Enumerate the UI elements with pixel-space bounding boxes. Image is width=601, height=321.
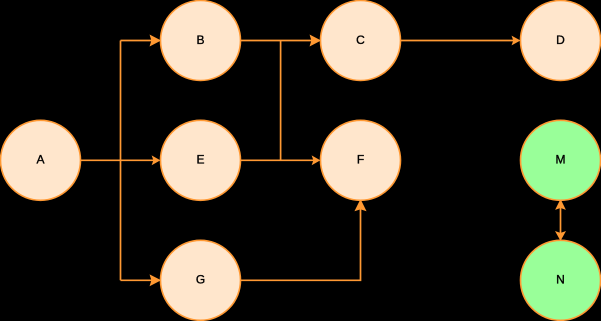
svg-text:G: G bbox=[196, 273, 205, 287]
arrowhead into N top pointing down bbox=[557, 232, 565, 239]
node E bbox=[161, 120, 241, 200]
node A bbox=[1, 120, 81, 200]
arrowhead into D bbox=[513, 37, 519, 44]
arrowhead into E bbox=[153, 157, 159, 164]
wire A to E horizontal bbox=[81, 159, 155, 161]
node M bbox=[521, 120, 601, 200]
svg-text:A: A bbox=[36, 153, 44, 167]
wire B to C bbox=[241, 40, 313, 42]
node F bbox=[321, 120, 401, 200]
svg-text:E: E bbox=[196, 153, 204, 167]
wire C to D bbox=[401, 40, 515, 42]
node N bbox=[521, 240, 601, 320]
node C bbox=[321, 1, 401, 81]
node G bbox=[161, 240, 241, 320]
svg-text:F: F bbox=[357, 153, 364, 167]
wire connector vertical between B-C line and E-F line bbox=[280, 41, 282, 161]
svg-text:N: N bbox=[556, 273, 565, 287]
wire branch vertical from B row to G row bbox=[120, 41, 122, 281]
wire M to N double arrow bbox=[560, 208, 562, 234]
wire E to F bbox=[241, 159, 315, 161]
arrowhead into F left bbox=[313, 157, 319, 164]
wire branch to B bbox=[121, 40, 153, 42]
svg-text:C: C bbox=[356, 33, 365, 47]
node B bbox=[161, 1, 241, 81]
arrowhead into M bottom pointing up bbox=[557, 201, 565, 209]
svg-text:M: M bbox=[556, 153, 566, 167]
arrowhead into B bbox=[151, 36, 160, 45]
svg-text:D: D bbox=[556, 33, 565, 47]
wire G to F bbox=[241, 209, 361, 280]
arrowhead into G bbox=[151, 276, 160, 285]
svg-text:B: B bbox=[196, 33, 204, 47]
arrowhead into C bbox=[311, 36, 320, 45]
arrowhead into F bottom pointing up bbox=[356, 201, 365, 211]
wire branch to G bbox=[121, 279, 153, 281]
node D bbox=[521, 1, 601, 81]
